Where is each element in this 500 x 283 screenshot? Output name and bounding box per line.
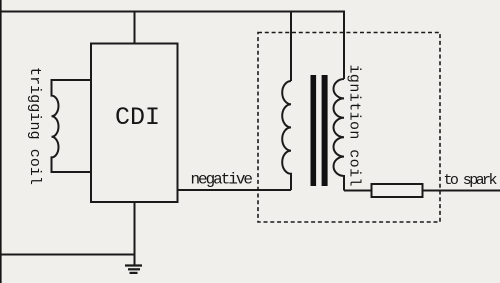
svg-text:negative: negative: [191, 171, 254, 189]
svg-text:trigging coil: trigging coil: [26, 67, 43, 185]
svg-text:CDI: CDI: [115, 103, 160, 132]
svg-text:to spark: to spark: [444, 172, 498, 189]
svg-text:ignition coil: ignition coil: [346, 65, 363, 187]
